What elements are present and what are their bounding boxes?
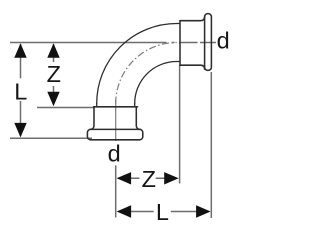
svg-text:Z: Z [142, 166, 156, 192]
svg-text:L: L [156, 199, 169, 225]
svg-text:L: L [14, 79, 27, 105]
svg-text:d: d [108, 141, 121, 167]
svg-text:d: d [217, 28, 230, 54]
svg-text:Z: Z [47, 61, 61, 87]
